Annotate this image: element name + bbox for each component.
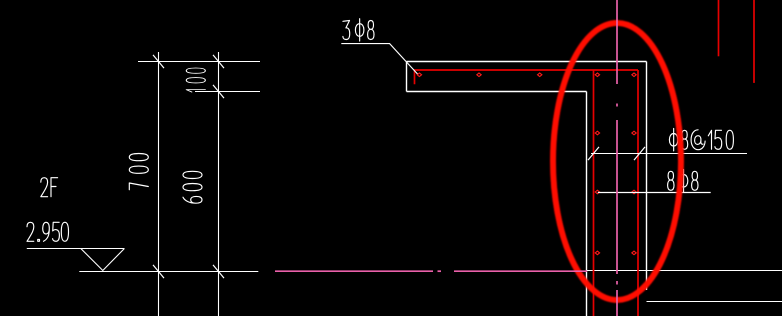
rebar section dots row 1 <box>417 73 636 77</box>
level symbol triangle <box>81 249 125 271</box>
wall right face <box>646 62 648 291</box>
floor text 2F <box>41 178 58 197</box>
dim tick at (158,61.5) <box>153 55 164 68</box>
slab left edge <box>406 62 408 92</box>
rebar: wall outer vertical bar <box>593 70 595 316</box>
dimension extension line mid (slab soffit level) <box>195 91 260 93</box>
dim text 600 <box>183 171 202 203</box>
rebar section dots row 3 <box>595 190 636 194</box>
dim text 100 <box>186 68 205 92</box>
dimension line right (600 dim) <box>218 52 220 316</box>
pink centerline vertical (wall axis) <box>616 0 618 316</box>
pink centerline horizontal (floor axis) <box>275 270 587 272</box>
slab bottom edge <box>407 91 587 93</box>
label phi8at150 leader <box>591 153 747 155</box>
dimension extension line top (slab top level) <box>138 61 260 63</box>
dim tick at (158,271.5) <box>153 265 164 278</box>
top-right red bar 2 <box>753 0 755 83</box>
dim text 700 <box>129 154 148 190</box>
dim tick at (218,61.5) <box>213 55 224 68</box>
slab top edge <box>407 61 647 63</box>
dim tick at (218,271.5) <box>213 265 224 278</box>
leader tick at inner bar <box>634 147 645 160</box>
rebar section dots row 4 <box>595 251 636 255</box>
dim tick at (218,91.5) <box>213 85 224 98</box>
leader tick at outer bar <box>588 147 599 160</box>
label phi8at150 text <box>669 129 733 151</box>
floor slab bottom right <box>647 301 782 303</box>
rebar section dots row 2 <box>595 131 636 135</box>
rebar: wall inner vertical bar <box>637 70 639 316</box>
top-right red bar 1 <box>718 0 720 56</box>
red highlight ellipse <box>553 23 681 300</box>
level text 2.950 <box>27 222 69 241</box>
floor slab top right <box>587 270 782 272</box>
ground line left <box>79 271 258 273</box>
label 3phi8 text <box>343 19 374 41</box>
label 8phi8 leader <box>598 192 711 194</box>
rebar: slab top bar with hook <box>415 70 639 84</box>
label 3phi8 leader <box>341 44 417 74</box>
wall left face <box>586 92 588 316</box>
level symbol underline <box>27 248 125 250</box>
dimension line left (700 dim) <box>158 52 160 316</box>
label 8phi8 text <box>668 170 698 192</box>
